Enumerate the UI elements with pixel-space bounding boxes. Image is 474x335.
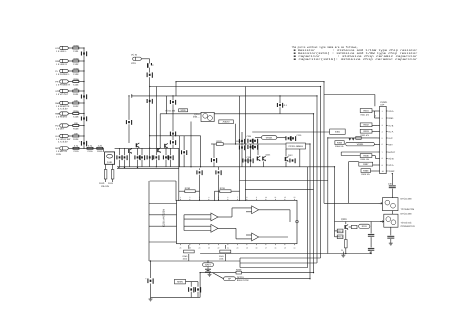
wire: bus drop D bbox=[313, 114, 315, 273]
wire bbox=[263, 162, 265, 167]
wire bbox=[172, 104, 174, 131]
wire bbox=[115, 147, 179, 149]
component FL201 box bbox=[219, 120, 234, 124]
connector J105 bbox=[60, 89, 69, 92]
wire bbox=[79, 135, 84, 137]
ground bbox=[208, 273, 212, 277]
wire bbox=[255, 137, 261, 139]
wire: mic row bbox=[69, 147, 104, 149]
wire bbox=[69, 47, 73, 49]
wire: net under Q201 bbox=[150, 135, 201, 137]
wire: test point TP1 bbox=[342, 252, 344, 254]
wire bbox=[306, 143, 311, 145]
wire bbox=[211, 143, 216, 145]
wire bbox=[235, 124, 237, 144]
transistor Q206 bbox=[262, 156, 266, 161]
connector J102 bbox=[60, 59, 69, 62]
svg-text:R308 10k: R308 10k bbox=[361, 173, 370, 176]
svg-text:12: 12 bbox=[284, 196, 286, 199]
wire: CN301 pin 10 stub bbox=[386, 170, 387, 172]
capacitor C141 bbox=[211, 158, 217, 163]
svg-text:4: 4 bbox=[382, 131, 383, 134]
wire: CN301 pin 5 bbox=[378, 137, 380, 139]
wire bbox=[373, 164, 378, 166]
svg-text:X301: X301 bbox=[335, 131, 341, 134]
wire bbox=[150, 261, 152, 278]
wire: CN301 pin 7 stub bbox=[386, 151, 387, 153]
wire bbox=[69, 81, 73, 83]
wire bbox=[137, 160, 139, 167]
wire bbox=[69, 102, 73, 104]
wire bbox=[103, 148, 105, 152]
wire bbox=[277, 137, 286, 139]
svg-text:VR301: VR301 bbox=[357, 143, 364, 146]
wire bbox=[235, 228, 237, 239]
wire bbox=[199, 273, 201, 298]
IC Q201 (dual transistor) bbox=[201, 112, 214, 121]
wire: IC pin feed 2 bbox=[244, 87, 246, 202]
wire bbox=[285, 149, 287, 157]
component X301 box bbox=[330, 129, 346, 134]
svg-text:VD-A: VD-A bbox=[388, 110, 394, 113]
connector J104 bbox=[60, 80, 69, 83]
wire bbox=[69, 90, 73, 92]
svg-text:C103: C103 bbox=[73, 73, 79, 76]
wire bbox=[183, 136, 185, 150]
wire bbox=[241, 132, 243, 167]
wire bbox=[178, 148, 180, 201]
wire: CN301 pin 6 bbox=[378, 143, 380, 145]
wire bbox=[128, 124, 130, 143]
wire bbox=[341, 155, 360, 157]
capacitor C222 bbox=[239, 139, 245, 144]
wire bbox=[179, 136, 181, 167]
IC201 pin numbers bbox=[179, 196, 295, 249]
wire bbox=[231, 208, 233, 217]
wire bbox=[372, 155, 376, 157]
svg-text:J201: J201 bbox=[131, 62, 137, 65]
svg-text:R110: R110 bbox=[99, 182, 105, 185]
svg-text:R250: R250 bbox=[236, 268, 242, 271]
svg-text:DTC114EE: DTC114EE bbox=[401, 197, 413, 200]
wire: net VDD top bbox=[176, 81, 324, 83]
component VR301 oval bbox=[346, 142, 375, 146]
wire bbox=[214, 191, 216, 201]
svg-text:R115: R115 bbox=[97, 150, 103, 153]
svg-text:R301: R301 bbox=[363, 110, 369, 113]
capacitor C303 bbox=[368, 234, 374, 236]
wire bbox=[345, 230, 347, 240]
svg-text:8ohm 0.2W: 8ohm 0.2W bbox=[237, 279, 249, 282]
wire: diagonal to speaker bbox=[213, 273, 224, 279]
svg-text:Q205: Q205 bbox=[266, 154, 271, 157]
svg-text:C115: C115 bbox=[73, 150, 79, 153]
svg-text:10k 10k: 10k 10k bbox=[101, 185, 110, 188]
component CF201 box bbox=[286, 143, 306, 149]
wire bbox=[250, 144, 252, 167]
svg-text:TEMP: TEMP bbox=[388, 170, 395, 173]
wire bbox=[172, 96, 174, 100]
transistor Q103 bbox=[157, 148, 161, 153]
wire bbox=[199, 168, 201, 170]
wire: CN301 pin 9 bbox=[378, 164, 380, 166]
wire bbox=[112, 164, 114, 169]
svg-text:C105: C105 bbox=[73, 115, 79, 118]
wire bbox=[242, 272, 314, 274]
connector BATT oval bbox=[203, 263, 214, 267]
svg-text:MIC: MIC bbox=[55, 147, 59, 150]
capacitor C230a bbox=[289, 158, 295, 163]
wire bbox=[374, 95, 376, 107]
svg-text:1 5 PHONE R: 1 5 PHONE R bbox=[56, 83, 70, 86]
svg-text:DTC114EE: DTC114EE bbox=[401, 212, 413, 215]
wire: speaker net bbox=[200, 272, 236, 274]
svg-text:20: 20 bbox=[236, 246, 238, 249]
svg-text:R307: R307 bbox=[363, 163, 369, 166]
capacitor C211 bbox=[170, 100, 176, 105]
wire bbox=[172, 145, 174, 149]
svg-text:X201: X201 bbox=[181, 109, 187, 112]
svg-text:VC-A: VC-A bbox=[388, 164, 394, 167]
wire bbox=[170, 148, 172, 155]
IC Q301 (digital transistor) bbox=[382, 198, 398, 211]
connector J106 bbox=[60, 101, 69, 104]
wire bbox=[374, 111, 376, 118]
wire: net to IC302 bbox=[335, 221, 384, 223]
op-amp B of IC201 bbox=[211, 224, 218, 232]
wire: bottom gnd rail bbox=[151, 296, 201, 298]
wire bbox=[79, 90, 84, 92]
connector J201 (VC IN) bbox=[133, 57, 142, 60]
wire: op-amp B in+ bbox=[184, 225, 211, 227]
wire: op-amp D out bbox=[259, 236, 288, 238]
component R301 box bbox=[360, 109, 372, 113]
wire bbox=[79, 60, 84, 62]
wire bbox=[79, 113, 84, 115]
wire: CN301 pin 8 bbox=[378, 157, 380, 159]
wire bbox=[391, 174, 393, 185]
wire: op-amp C out bbox=[259, 209, 290, 211]
capacitor C170 bbox=[167, 155, 173, 160]
svg-text:4.7u 6.3V: 4.7u 6.3V bbox=[58, 108, 68, 111]
capacitor C251 bbox=[188, 287, 194, 292]
svg-text:VLC: VLC bbox=[388, 137, 393, 140]
svg-text:7: 7 bbox=[382, 151, 383, 154]
wire: nested net A bbox=[240, 257, 321, 259]
connector J101 bbox=[60, 46, 69, 49]
capacitor C110 bbox=[81, 51, 87, 56]
IC201 index notch bbox=[296, 220, 299, 223]
svg-text:C225: C225 bbox=[247, 135, 252, 138]
wire: op-amp B in- bbox=[184, 230, 211, 232]
svg-text:R306: R306 bbox=[363, 155, 369, 158]
svg-text:6: 6 bbox=[227, 196, 228, 199]
wire bbox=[105, 164, 107, 169]
wire bbox=[124, 160, 126, 167]
svg-text:100k: 100k bbox=[219, 257, 223, 260]
wire: net BIAS bbox=[223, 143, 286, 145]
diode D302 bbox=[352, 138, 354, 140]
wire: op-amp C in 1 bbox=[232, 207, 252, 209]
component R101 bbox=[73, 87, 79, 96]
wire bbox=[374, 156, 376, 159]
capacitor C225b bbox=[252, 139, 258, 144]
component R308 box bbox=[361, 169, 371, 173]
svg-text:C224: C224 bbox=[247, 156, 252, 159]
resistor R231 bbox=[220, 187, 231, 193]
component PCB box bbox=[175, 279, 186, 284]
resistor R230 bbox=[185, 187, 195, 193]
capacitor C166 bbox=[163, 155, 169, 160]
wire bbox=[159, 114, 161, 149]
wire bbox=[375, 157, 377, 159]
svg-text:R302: R302 bbox=[363, 124, 369, 127]
svg-text:J105: J105 bbox=[56, 153, 62, 156]
component R304 box bbox=[335, 141, 344, 145]
resistor R115 bbox=[97, 145, 103, 154]
wire: drop from gnd bus bbox=[334, 167, 336, 222]
connector SP oval bbox=[224, 277, 236, 281]
component C101 bbox=[73, 44, 80, 53]
wire: Q201 emitter drop bbox=[190, 122, 192, 167]
component R307 box bbox=[359, 162, 373, 166]
wire: analog ground bus bbox=[117, 166, 179, 168]
wire bbox=[299, 149, 301, 167]
component R313 box bbox=[337, 229, 343, 233]
arrow into Q302 bbox=[380, 221, 384, 223]
wire bbox=[155, 87, 157, 149]
wire: bus drop B bbox=[320, 87, 322, 259]
wire bbox=[375, 117, 378, 119]
wire bbox=[124, 148, 126, 155]
svg-text:1 5 HOLD SW: 1 5 HOLD SW bbox=[56, 138, 71, 141]
wire bbox=[170, 160, 172, 167]
capacitor C223 bbox=[239, 145, 245, 150]
wire bbox=[112, 179, 114, 182]
capacitor C119 bbox=[116, 155, 122, 160]
wire bbox=[349, 226, 352, 228]
wire bbox=[69, 113, 73, 115]
wire: test point TP2 bbox=[369, 252, 371, 254]
wire bbox=[224, 254, 226, 261]
svg-text:1 5 REM B: 1 5 REM B bbox=[56, 115, 67, 118]
wire bbox=[129, 153, 131, 167]
wire: CN301 pin 4 stub bbox=[386, 131, 387, 133]
svg-text:1 5 VC OUT: 1 5 VC OUT bbox=[56, 93, 69, 96]
wire bbox=[142, 58, 150, 60]
svg-text:14: 14 bbox=[293, 246, 295, 249]
wire bbox=[372, 131, 378, 133]
wire bbox=[165, 148, 167, 155]
wire bbox=[183, 215, 185, 231]
wire bbox=[340, 152, 342, 156]
resistor R241 bbox=[220, 250, 231, 253]
svg-text:RIN: RIN bbox=[55, 60, 59, 63]
wire: CN301 pin 7 bbox=[378, 151, 380, 153]
wire: op-amp C in 2 bbox=[246, 211, 252, 213]
wire bbox=[183, 155, 185, 167]
svg-text:10: 10 bbox=[265, 196, 267, 199]
capacitor C304 bbox=[368, 248, 374, 250]
capacitor C226a bbox=[247, 145, 253, 150]
wire bbox=[79, 47, 84, 49]
wire bbox=[150, 284, 152, 298]
capacitor C140 bbox=[181, 150, 187, 155]
wire bbox=[213, 162, 215, 167]
wire bbox=[372, 110, 378, 112]
capacitor C228 bbox=[285, 136, 291, 141]
wire bbox=[141, 160, 143, 167]
svg-text:R304 10k: R304 10k bbox=[335, 145, 344, 148]
capacitor C137 bbox=[134, 155, 140, 160]
wire: IC in 2 bbox=[149, 214, 177, 216]
svg-text:8: 8 bbox=[246, 196, 247, 199]
svg-text:GND: GND bbox=[388, 117, 393, 120]
wire bbox=[345, 248, 347, 254]
resistor R220 bbox=[216, 140, 223, 146]
svg-text:9: 9 bbox=[256, 196, 257, 199]
wire bbox=[345, 222, 347, 225]
svg-text:TO DC-DC: TO DC-DC bbox=[401, 221, 412, 224]
transistor Q102 bbox=[136, 143, 140, 148]
capacitor C142 bbox=[170, 132, 176, 137]
svg-text:2: 2 bbox=[382, 117, 383, 120]
svg-text:R230: R230 bbox=[185, 187, 191, 190]
svg-text:4: 4 bbox=[208, 196, 209, 199]
svg-text:MAIN: MAIN bbox=[177, 281, 183, 284]
component VR201 oval bbox=[261, 136, 277, 140]
wire bbox=[372, 124, 378, 126]
wire bbox=[79, 81, 84, 83]
transistor Q105 bbox=[128, 149, 132, 154]
wire: CN301 pin 9 stub bbox=[386, 164, 387, 166]
svg-text:1 5 REMOTE: 1 5 REMOTE bbox=[56, 105, 70, 108]
wire: CN301 pin 5 stub bbox=[386, 137, 387, 139]
wire: CN301 pin 3 stub bbox=[386, 124, 387, 126]
arrow into Q301 bbox=[379, 202, 383, 204]
connector J108 bbox=[60, 124, 69, 127]
wire bbox=[119, 160, 121, 167]
wire bbox=[334, 222, 336, 237]
svg-text:22: 22 bbox=[217, 246, 219, 249]
wire bbox=[69, 135, 73, 137]
capacitor C130 bbox=[147, 155, 153, 160]
resistor R305 bbox=[356, 137, 361, 140]
wire: CN301 pin 8 stub bbox=[386, 157, 387, 159]
capacitor C115 bbox=[73, 145, 79, 154]
wire bbox=[186, 281, 199, 283]
wire bbox=[179, 190, 185, 192]
capacitor C120 bbox=[126, 120, 132, 125]
wire: CN301 pin 1 bbox=[378, 110, 380, 112]
svg-text:2SB....: 2SB.... bbox=[193, 116, 200, 119]
wire: net AVDD bbox=[150, 86, 321, 88]
wire bbox=[69, 125, 73, 127]
svg-text:R101: R101 bbox=[73, 93, 79, 96]
capacitor C113 bbox=[81, 141, 87, 146]
wire bbox=[370, 251, 372, 253]
capacitor C226 bbox=[252, 145, 258, 150]
wire bbox=[335, 230, 338, 232]
resistor R312 bbox=[345, 240, 348, 248]
wire: CN301 pin 4 bbox=[378, 131, 380, 133]
connector J105 (MIC) bbox=[60, 147, 69, 150]
wire bbox=[239, 258, 241, 268]
capacitor C156 bbox=[153, 155, 159, 160]
svg-text:VL-A: VL-A bbox=[388, 131, 394, 134]
connector J107 bbox=[60, 112, 69, 115]
wire: net to IC301 bbox=[324, 202, 382, 204]
wire: IC201 out B bbox=[245, 188, 313, 190]
svg-text:Q303: Q303 bbox=[341, 218, 347, 221]
svg-text:8: 8 bbox=[382, 157, 383, 160]
wire bbox=[289, 210, 291, 222]
svg-text:6: 6 bbox=[382, 143, 383, 146]
capacitor C227 bbox=[247, 158, 253, 163]
wire bbox=[370, 237, 372, 247]
wire: net AIN left bbox=[160, 113, 201, 115]
op-amp D of IC201 bbox=[252, 233, 259, 241]
svg-text:R314: R314 bbox=[337, 236, 343, 239]
svg-text:10P: 10P bbox=[380, 104, 385, 107]
wire bbox=[390, 239, 392, 242]
wire bbox=[69, 60, 73, 62]
svg-text:R303: R303 bbox=[363, 130, 369, 133]
svg-text:C101: C101 bbox=[73, 50, 79, 53]
wire bbox=[279, 96, 281, 103]
wire bbox=[165, 160, 167, 167]
wire bbox=[175, 82, 177, 96]
wire bbox=[188, 254, 190, 261]
wire bbox=[391, 211, 393, 215]
component R311 oval bbox=[359, 224, 370, 228]
wire bbox=[199, 175, 201, 201]
svg-text:R303 47k: R303 47k bbox=[361, 134, 370, 137]
wire bbox=[349, 161, 359, 163]
wire: net over IC bbox=[150, 180, 176, 182]
transistor Q104 bbox=[164, 143, 168, 148]
wire bbox=[172, 136, 174, 140]
resistor R111 bbox=[111, 170, 114, 180]
battery BT1 bbox=[205, 267, 211, 273]
wire bbox=[207, 261, 209, 263]
capacitor C142 bbox=[139, 155, 145, 160]
component R306 box bbox=[360, 154, 372, 158]
component R102 bbox=[73, 99, 79, 108]
svg-text:CF201 450kHz: CF201 450kHz bbox=[288, 145, 303, 148]
wire bbox=[175, 181, 177, 201]
svg-text:Q101: Q101 bbox=[107, 161, 113, 164]
wire bbox=[197, 282, 199, 287]
wire bbox=[166, 96, 168, 114]
transistor Q303 bbox=[345, 225, 349, 230]
svg-text:R308: R308 bbox=[363, 170, 369, 173]
capacitor C203 bbox=[147, 99, 153, 104]
wire: CN301 pin 3 bbox=[378, 124, 380, 126]
wire bbox=[335, 236, 338, 238]
wire bbox=[390, 227, 392, 235]
wire: op-amp A in- bbox=[184, 218, 211, 220]
wire: IC in 3 bbox=[149, 225, 177, 227]
wire: ground bus extension bbox=[179, 166, 335, 168]
svg-text:100k: 100k bbox=[183, 257, 187, 260]
svg-text:R304: R304 bbox=[337, 142, 343, 145]
wire bbox=[141, 148, 143, 155]
svg-text:BATT: BATT bbox=[205, 264, 211, 267]
svg-text:13: 13 bbox=[293, 196, 295, 199]
wire bbox=[79, 70, 84, 72]
svg-text:B.OUT: B.OUT bbox=[388, 151, 396, 154]
